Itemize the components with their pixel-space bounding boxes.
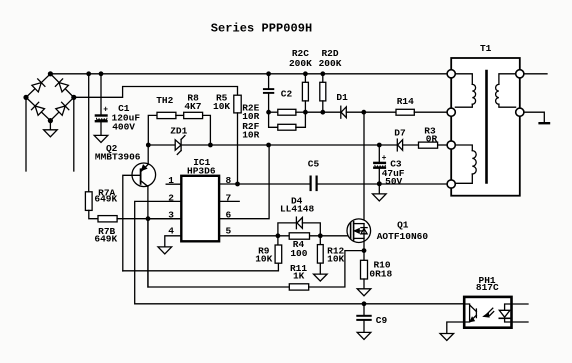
terminal T1 left 2 [447,108,455,116]
svg-text:649K: 649K [94,194,117,205]
resistor R9 [275,236,282,271]
node D1-R14 [361,110,366,115]
label ZD1 [170,126,187,137]
wire AC input right [73,97,75,171]
optocoupler PH1 [464,297,511,328]
pin 3 label [168,209,174,220]
svg-text:817C: 817C [476,282,499,293]
diode D7 [397,139,418,151]
svg-text:200K: 200K [319,58,342,69]
svg-text:LL4148: LL4148 [280,203,315,214]
svg-text:10K: 10K [327,253,344,264]
zener ZD1 [148,136,210,155]
label R10 0R18 [369,259,392,279]
svg-text:4K7: 4K7 [184,101,201,112]
svg-text:Series PPP009H: Series PPP009H [211,22,313,36]
svg-text:TH2: TH2 [156,95,173,106]
label C3 47uF 50V [382,159,405,187]
wire bridge right node to R5 [74,87,238,98]
pin 2 wire [135,201,465,303]
svg-text:100: 100 [290,248,307,259]
label R8 4K7 [184,92,201,112]
wire rail to R7A [88,74,90,192]
IC U1 body [181,176,219,242]
resistor R10 [361,260,368,288]
node zd1 left [146,143,151,148]
resistor R4 [289,233,309,239]
label TH2 [156,95,173,106]
svg-text:5: 5 [225,226,231,237]
pin 5 label [225,226,231,237]
label PH1 817C [476,275,499,293]
wire PH1 out top [512,303,529,305]
label IC1 HP3D6 [187,157,216,177]
node gate-left [276,233,281,238]
terminal T1 left 3 [447,141,455,149]
wire T1 secondary out [524,73,547,75]
capacitor C3 [374,145,386,184]
terminal T1 right 1 [516,70,524,78]
ground C1 [94,135,108,142]
node C9 top [362,301,367,306]
node bridge top [48,71,53,76]
wire PH1 cathode to ground [447,322,464,333]
svg-text:AOTF10N60: AOTF10N60 [377,231,429,242]
resistor R2E [269,109,306,115]
label R12 10K [327,245,344,264]
thermistor TH2 [148,112,183,145]
label R2C 200K [289,48,312,69]
label R7A 649K [94,187,117,204]
terminal T1 left 4 [447,180,455,188]
svg-text:6: 6 [225,209,231,220]
pin 6 label [225,209,231,220]
label C2 [281,88,293,99]
transistor Q2 [132,145,156,287]
wire AC input left [25,97,27,171]
pin 8 wire [219,183,310,185]
label R2D 200K [319,48,342,69]
pin 7 label [225,192,231,203]
node zd1 right [208,143,213,148]
node C3-gnd [377,181,382,186]
node gate-right [318,233,323,238]
label R5 [213,92,230,112]
resistor R2D [320,74,326,112]
svg-text:400V: 400V [112,121,135,132]
bridge rectifier BR1 [26,74,74,121]
svg-text:MMBT3906: MMBT3906 [95,151,141,162]
resistor R11 [148,219,364,290]
svg-text:+: + [382,154,387,163]
label R2F 10R [242,121,259,141]
ground PH1 [440,334,454,341]
label R11 1K [290,263,307,282]
node pin3 [146,216,151,221]
pin 7 stub [219,200,239,202]
node snub-R2D [320,110,325,115]
label C5 [308,159,320,170]
pin 3 wire [148,218,181,220]
node rail-C2 [266,71,271,76]
wire feedback base-R9 [123,270,279,272]
resistor R2F [269,112,306,130]
svg-text:ZD1: ZD1 [170,126,187,137]
terminal T1 left 1 [447,70,455,78]
wire zener rail middle [210,144,397,146]
wire PH1 out bottom [512,321,529,323]
label R3 0R [424,125,437,144]
svg-text:Q1: Q1 [397,220,409,231]
node rail-R2D [320,71,325,76]
wire snubber node [305,111,322,113]
svg-text:HP3D6: HP3D6 [187,165,216,176]
capacitor C9 [357,304,370,333]
pin 1 stub [166,183,181,185]
label R9 10K [255,245,272,264]
svg-text:10K: 10K [213,101,230,112]
node pin8-R5 [235,182,240,187]
node rail-R2C [303,71,308,76]
svg-text:C2: C2 [281,88,293,99]
ground C9 [357,332,371,339]
resistor R8 [184,112,211,145]
label D7 [394,128,406,139]
capacitor C5 [311,177,448,190]
diode D1 [323,106,364,118]
svg-text:0R: 0R [426,133,438,144]
svg-text:T1: T1 [480,43,492,54]
ground bridge bottom [44,121,58,137]
node bridge left [23,95,28,100]
ground R12 [314,274,328,281]
ground T1 secondary [540,122,549,124]
ground pin4 [158,247,172,254]
svg-text:10K: 10K [255,253,272,264]
pin 5 wire gate net [219,235,351,237]
svg-text:C5: C5 [308,159,320,170]
label C1 value [112,103,141,132]
wire T1 secondary return [524,112,544,122]
svg-text:10R: 10R [242,129,259,140]
transformer T1 [451,58,520,196]
node bridge bottom [48,118,53,123]
pin 2 label [168,192,174,203]
label Q2 MMBT3906 [95,143,141,162]
terminal T1 right 2 [516,108,524,116]
svg-text:649K: 649K [94,234,117,245]
node rail-88 [86,71,91,76]
node rail-C3 [377,143,382,148]
svg-text:50V: 50V [385,176,402,187]
capacitor C1 [96,74,108,136]
svg-text:C9: C9 [376,315,388,326]
svg-text:1: 1 [168,175,174,186]
svg-text:200K: 200K [289,58,312,69]
svg-text:D7: D7 [394,128,406,139]
pin 1 label [168,175,174,186]
svg-text:2: 2 [168,192,174,203]
resistor R14 [364,109,448,115]
node pin8 aux gnd [377,181,382,186]
node snub-R2C [303,110,308,115]
node rail-C1 [99,71,104,76]
resistor R2C [302,74,308,112]
pin 8 label [225,175,231,186]
wire R5 bottom to pin8 net [237,113,239,184]
label Q1 AOTF10N60 [377,220,429,242]
resistor R5 [234,95,241,113]
wire Q2 base [123,175,141,271]
label D4 LL4148 [280,196,315,215]
node C2-R2E [266,110,271,115]
svg-text:4: 4 [168,226,174,237]
ground R10 [357,289,371,296]
resistor R3 [419,142,448,148]
node Q1 source [362,248,367,253]
node rail-C2col [266,143,271,148]
svg-text:0R18: 0R18 [369,268,392,279]
title Series PPP009H [211,22,313,36]
resistor R7B [98,216,181,222]
resistor R12 [317,236,323,274]
svg-text:+: + [103,106,108,115]
svg-text:R14: R14 [397,96,414,107]
label R14 [397,96,414,107]
pin 6 wire [219,145,269,219]
resistor R7A [85,192,98,219]
svg-text:7: 7 [225,192,231,203]
capacitor C2 [264,74,273,112]
diode D4 [278,217,320,236]
label T1 [480,43,492,54]
label C9 [376,315,388,326]
svg-text:1K: 1K [293,271,305,282]
label D1 [336,92,348,103]
label R2E 10R [242,103,259,122]
svg-text:3: 3 [168,209,174,220]
node bridge right [71,95,76,100]
mosfet Q1 [347,112,371,260]
pin 4 label [168,226,174,237]
pin 4 wire [165,236,182,247]
svg-text:8: 8 [225,175,231,186]
wire top DC rail [50,73,447,75]
ground C3 [373,184,387,201]
label R7B 649K [94,226,117,245]
svg-text:D1: D1 [336,92,348,103]
label R4 100 [290,239,307,259]
